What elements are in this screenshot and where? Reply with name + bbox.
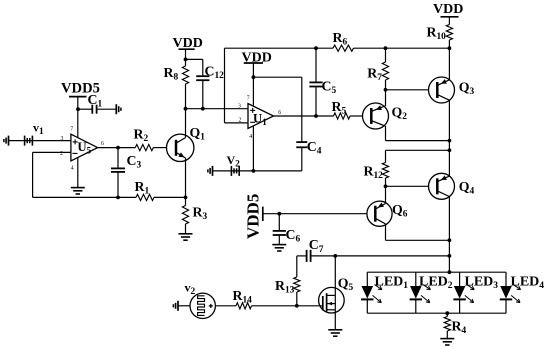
wire feedback right vertical — [301, 77, 303, 142]
op-amp U5 — [71, 134, 98, 161]
svg-text:LED3: LED3 — [465, 275, 499, 292]
ground (R4) — [440, 339, 454, 345]
svg-text:7: 7 — [70, 127, 73, 133]
resistor R8 — [164, 65, 189, 84]
wire R6 line — [225, 47, 450, 49]
wire Q2 emitter up — [385, 90, 387, 106]
wire R14 to Q5 gate — [252, 305, 323, 307]
wire U5 pin 4 — [77, 158, 79, 188]
pin 7 label (U5) — [70, 127, 73, 133]
svg-text:4: 4 — [249, 134, 252, 140]
wire U1 pin 4 — [252, 126, 254, 171]
wire LED box top — [367, 271, 506, 273]
resistor R10 — [427, 17, 453, 80]
svg-text:LED1: LED1 — [375, 275, 409, 292]
node C5 bottom — [314, 114, 318, 118]
node U1 pin7/feedback — [252, 75, 256, 79]
capacitor C4 — [296, 139, 321, 157]
pin 3 label (U5) — [61, 136, 64, 142]
node C6 branch — [277, 212, 281, 216]
resistor R3 — [182, 197, 207, 233]
transistor Q4 — [429, 173, 475, 199]
node R7 / Q2 / Q3 base — [384, 88, 388, 92]
resistor R7 — [367, 48, 388, 90]
source V2 label — [227, 153, 241, 170]
wire C7 line to column — [335, 255, 449, 257]
LED LED2 — [410, 272, 453, 313]
wire VDD to R8 — [185, 49, 187, 66]
wire R5 to Q2 base — [350, 115, 362, 117]
pin 4 label (U5) — [71, 166, 74, 172]
source v1 label — [33, 121, 44, 138]
node R8/Q1/U1 line — [184, 107, 188, 111]
ground (U5 pin 4) — [71, 188, 85, 194]
wire Q6 to main column — [386, 239, 450, 241]
resistor R2 — [134, 127, 154, 151]
svg-text:C3: C3 — [127, 153, 142, 171]
resistor R6 — [333, 30, 354, 51]
svg-text:Q5: Q5 — [338, 276, 354, 294]
wire U1 output — [274, 115, 334, 117]
wire v2 to source — [178, 305, 190, 307]
wire VDD5 rail to U5 pin 7 — [77, 97, 79, 138]
resistor R12 — [364, 150, 389, 203]
svg-text:6: 6 — [101, 141, 104, 147]
wire to Q4 base — [386, 185, 429, 187]
svg-text:C6: C6 — [286, 227, 301, 245]
svg-text:R6: R6 — [333, 30, 348, 48]
svg-text:C12: C12 — [205, 64, 225, 82]
svg-text:C7: C7 — [309, 237, 324, 255]
terminal (v1 left) — [4, 136, 9, 146]
wire U1 pin 2 stub — [225, 122, 249, 124]
svg-text:R5: R5 — [332, 99, 347, 117]
svg-text:Q2: Q2 — [392, 105, 408, 123]
wire branch to C12 — [186, 58, 203, 60]
svg-text:C5: C5 — [322, 79, 337, 97]
svg-text:Q1: Q1 — [190, 125, 206, 143]
transistor Q3 — [429, 77, 475, 103]
capacitor C12 — [196, 59, 224, 108]
node R6 / column — [448, 46, 452, 50]
wire R12 top line — [386, 149, 450, 151]
wire Q2 collector down — [385, 126, 387, 141]
node C12 branch — [184, 58, 188, 62]
resistor R14 — [233, 288, 253, 309]
node C1 branch — [76, 107, 80, 111]
node C5 top — [314, 46, 318, 50]
svg-text:V2: V2 — [227, 153, 241, 170]
node Q2 line / column — [448, 139, 452, 143]
wire v2 source to R14 — [215, 305, 236, 307]
wire feedback top (U1) — [253, 76, 301, 78]
source v2 label — [185, 281, 196, 298]
svg-text:R3: R3 — [193, 205, 208, 223]
power VDD5 (rotated) — [244, 194, 263, 239]
wire to Q3 base — [386, 89, 429, 91]
pin 6 label (U1) — [278, 110, 281, 116]
node R13 / v2 line — [295, 304, 299, 308]
svg-text:R4: R4 — [452, 319, 467, 337]
svg-text:C4: C4 — [307, 139, 322, 157]
pin 6 label (U5) — [101, 141, 104, 147]
wire U5 output — [98, 147, 136, 149]
wire R8 to Q1 collector — [185, 84, 187, 138]
svg-text:VDD5: VDD5 — [244, 194, 263, 239]
pin 7 label (U1) — [247, 96, 250, 102]
LED LED1 — [361, 272, 408, 313]
transistor Q2 — [363, 103, 408, 129]
node R4 top — [445, 311, 449, 315]
svg-text:3: 3 — [61, 136, 64, 142]
svg-text:VDD: VDD — [433, 2, 463, 17]
node Q1 emitter / R3 — [184, 196, 188, 200]
svg-text:Q4: Q4 — [459, 179, 475, 197]
resistor R4 — [444, 313, 466, 338]
wire Q6 collector down — [385, 224, 387, 240]
resistor R1 — [135, 179, 155, 200]
pin 2 label (U5) — [60, 151, 63, 157]
wire LED box bottom — [367, 312, 506, 314]
wire C4 to V2 line — [213, 147, 302, 171]
LED LED3 — [453, 272, 498, 313]
node U1 pin4 / V2 line — [252, 169, 256, 173]
terminal (C1 right) — [116, 104, 121, 114]
pin 2 label (U1) — [239, 118, 242, 124]
wire feedback vertical (U5) — [32, 152, 34, 197]
svg-text:R14: R14 — [233, 288, 253, 306]
pin 3 label (U1) — [238, 103, 241, 109]
capacitor C6 — [273, 214, 301, 245]
wire R1 to emitter node — [154, 196, 186, 198]
source V2 — [231, 166, 239, 176]
svg-text:6: 6 — [278, 110, 281, 116]
ground (C6) — [272, 245, 286, 251]
resistor R5 — [332, 99, 351, 119]
wire Q5 drain — [334, 256, 336, 296]
resistor R13 — [275, 256, 300, 306]
wire to U1 pin 3 — [186, 108, 249, 110]
wire column to LED box — [448, 270, 452, 274]
node R12 / Q4 base / Q6 — [384, 184, 388, 188]
op-amp U1 — [248, 104, 274, 129]
node Q6 line / column — [448, 238, 452, 242]
wire Q1 emitter — [185, 158, 187, 197]
ground (R3) — [179, 234, 193, 240]
node C7 / Q5 drain — [333, 254, 337, 258]
power VDD5 (U5 supply) — [61, 81, 100, 97]
wire U5 pin 2 stub — [33, 151, 71, 153]
wire VDD to U1 pin 7 — [252, 63, 254, 107]
transistor Q1 — [167, 125, 206, 162]
svg-text:R7: R7 — [367, 66, 382, 84]
wire R6-line left vertical — [224, 48, 226, 123]
power VDD (top right) — [433, 2, 463, 17]
transistor Q5 (MOSFET) — [319, 276, 354, 314]
capacitor C5 — [309, 48, 336, 116]
svg-text:LED2: LED2 — [419, 275, 453, 292]
svg-text:3: 3 — [238, 103, 241, 109]
wire v1 to U5 pin 3 — [9, 140, 71, 142]
wire Q4 collector down — [448, 197, 450, 273]
pin 4 label (U1) — [249, 134, 252, 140]
node R7 top — [384, 46, 388, 50]
source v1 — [25, 136, 33, 146]
source v2 — [190, 293, 215, 318]
terminal (v2 left) — [173, 301, 178, 311]
node C7 / column — [448, 254, 452, 258]
svg-text:U1: U1 — [253, 111, 267, 127]
terminal (V2 left) — [208, 166, 213, 176]
capacitor C3 — [111, 148, 141, 198]
wire Q3 collector down — [448, 100, 450, 177]
svg-text:v2: v2 — [185, 281, 196, 298]
svg-text:U5: U5 — [77, 140, 91, 156]
svg-text:4: 4 — [71, 166, 74, 172]
ground (Q5) — [328, 330, 342, 336]
LED LED4 — [500, 272, 544, 313]
wire VDD5 to Q6 base — [263, 213, 367, 215]
svg-text:Q3: Q3 — [459, 80, 475, 98]
svg-text:R10: R10 — [427, 25, 447, 43]
capacitor C7 — [297, 237, 336, 262]
wire feedback bottom to R1 — [33, 196, 136, 198]
wire Q2 to main column — [386, 140, 450, 142]
svg-text:R2: R2 — [134, 127, 149, 145]
svg-text:R12: R12 — [364, 164, 384, 182]
svg-text:v1: v1 — [33, 121, 44, 138]
svg-text:R8: R8 — [164, 65, 179, 83]
power VDD (U1 supply) — [242, 51, 272, 66]
node C3 top — [116, 146, 120, 150]
svg-text:R1: R1 — [135, 179, 150, 197]
svg-text:R13: R13 — [275, 278, 295, 296]
wire R2 to Q1 base — [153, 147, 166, 149]
svg-text:C1: C1 — [88, 92, 103, 110]
transistor Q6 — [367, 201, 408, 226]
svg-text:LED4: LED4 — [511, 275, 545, 292]
node C12 bottom — [201, 107, 205, 111]
wire Q5 source — [334, 310, 336, 330]
power VDD (R8 rail) — [173, 36, 203, 51]
node R12 line / column — [448, 148, 452, 152]
svg-text:Q6: Q6 — [392, 202, 408, 220]
node C3 bottom — [116, 196, 120, 200]
capacitor C1 — [78, 92, 116, 114]
svg-text:2: 2 — [239, 118, 242, 124]
svg-text:7: 7 — [247, 96, 250, 102]
